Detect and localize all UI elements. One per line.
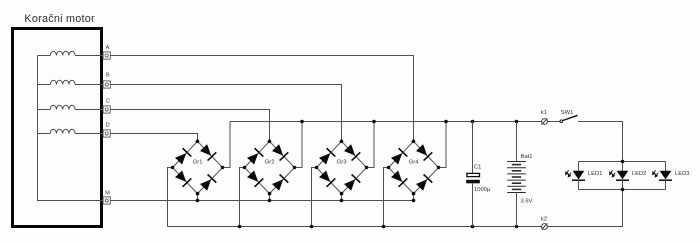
svg-text:Gr4: Gr4 [409, 160, 419, 166]
terminal pad C [103, 106, 110, 113]
svg-text:C1: C1 [474, 165, 481, 171]
wire: node A to Gr4 AC input [110, 56, 413, 142]
svg-text:Gr1: Gr1 [193, 160, 203, 166]
svg-text:k1: k1 [541, 110, 547, 116]
wire: node B to Gr3 AC input [110, 85, 341, 142]
wire: node D to Gr1 AC input [110, 134, 197, 142]
inductor: motor winding C [38, 109, 51, 111]
svg-text:LED1: LED1 [588, 171, 603, 177]
wire: switch SW1 to LED anode rail [578, 122, 623, 162]
battery Bat1 bottom lead [516, 193, 518, 227]
junction: Gr4 plus output on plus rail [444, 120, 448, 124]
svg-text:Gr2: Gr2 [265, 160, 275, 166]
svg-text:Koračni motor: Koračni motor [24, 13, 95, 25]
junction: Gr3 minus output on minus rail [310, 225, 314, 229]
junction: feed on LED anode rail [621, 160, 625, 164]
terminal pad M [103, 197, 110, 204]
svg-text:B: B [106, 73, 110, 79]
stepper motor M1 enclosure box [13, 29, 102, 227]
wire: node M common return along bridge AC inputs [110, 200, 413, 202]
battery Bat1 cell plates [507, 162, 526, 193]
junction: Gr2 plus output on plus rail [300, 120, 304, 124]
svg-text:LED3: LED3 [675, 171, 690, 177]
capacitor C1 negative plate [466, 180, 480, 184]
LED LED2 [610, 162, 629, 190]
terminal pad D [103, 130, 110, 137]
junction: Bat1 minus lead on minus rail [515, 225, 519, 229]
switch SW1 blade [563, 115, 578, 120]
bridge rectifier Gr3 [312, 122, 375, 227]
terminal pad A [103, 52, 110, 59]
wire: k2 to LED cathode rail [547, 190, 622, 227]
bridge rectifier Gr4 [384, 122, 447, 227]
junction: return on LED cathode rail [621, 188, 625, 192]
svg-text:k2: k2 [541, 216, 547, 222]
inductor: motor winding A [38, 55, 51, 57]
junction: Gr2 minus output on minus rail [238, 225, 242, 229]
junction: Gr3 plus output on plus rail [372, 120, 376, 124]
svg-text:3.6V: 3.6V [521, 199, 533, 205]
wire: DC minus rail from Gr1 to k2 [168, 226, 542, 228]
wire: node C to Gr2 AC input [110, 110, 269, 142]
terminal pad B [103, 81, 110, 88]
capacitor C1 top lead [472, 122, 474, 174]
bridge rectifier Gr1 [168, 122, 231, 227]
wire: k1 to switch contact [547, 121, 560, 123]
wire: LED anode rail [579, 161, 666, 163]
junction: Bat1 plus lead on plus rail [515, 120, 519, 124]
inductor: motor winding D [38, 133, 51, 135]
wire: motor internal common bus to terminal M [38, 56, 104, 201]
svg-text:C: C [106, 98, 110, 104]
inductor: motor winding B [38, 84, 51, 86]
svg-text:LED2: LED2 [632, 171, 647, 177]
capacitor C1 positive plate [467, 173, 480, 176]
svg-text:SW1: SW1 [561, 110, 574, 116]
wire: DC plus rail from Gr1 to k1 [230, 121, 542, 123]
svg-text:1000µ: 1000µ [474, 187, 491, 193]
capacitor C1 bottom lead [472, 183, 474, 226]
switch SW1 fixed contact [560, 120, 563, 123]
svg-text:A: A [106, 45, 110, 51]
svg-text:D: D [106, 123, 110, 129]
junction: Gr4 minus output on minus rail [382, 225, 386, 229]
connector k1 [542, 119, 548, 125]
svg-text:Bat1: Bat1 [521, 154, 533, 160]
junction: C1 top lead on plus rail [471, 120, 475, 124]
LED LED3 [653, 162, 672, 190]
bridge rectifier Gr2 [240, 122, 303, 227]
LED LED1 [566, 162, 585, 190]
junction: C1 bottom lead on minus rail [471, 225, 475, 229]
connector k2 [542, 224, 548, 230]
svg-text:M: M [105, 191, 110, 197]
battery Bat1 top lead [516, 122, 518, 162]
svg-text:Gr3: Gr3 [337, 160, 347, 166]
wire: LED cathode rail [579, 189, 666, 191]
